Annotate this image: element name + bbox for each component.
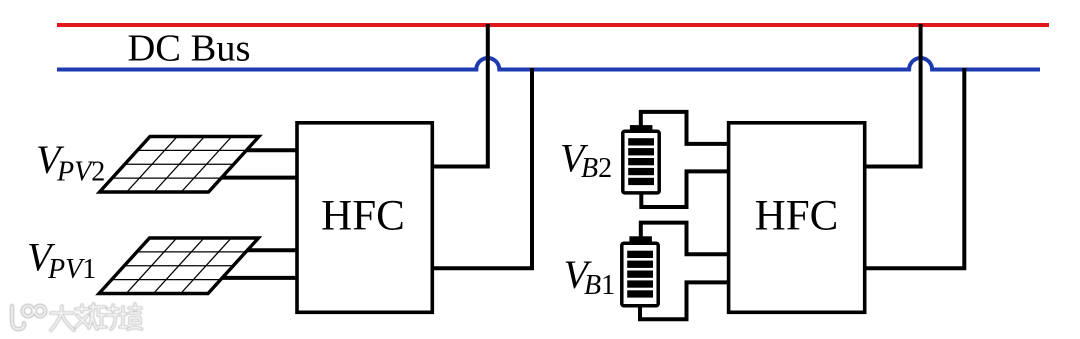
svg-text:DC Bus: DC Bus: [128, 28, 251, 70]
svg-text:HFC: HFC: [755, 193, 839, 240]
svg-text:PV2: PV2: [56, 157, 105, 188]
svg-text:HFC: HFC: [321, 193, 405, 240]
svg-text:PV1: PV1: [47, 254, 96, 285]
svg-text:B2: B2: [581, 153, 612, 184]
svg-text:B1: B1: [584, 270, 615, 301]
